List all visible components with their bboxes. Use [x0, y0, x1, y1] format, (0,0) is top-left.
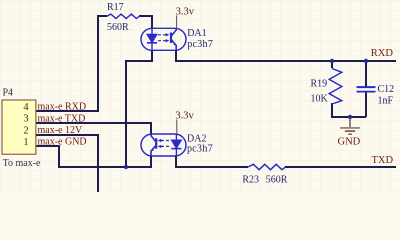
svg-text:max-e 12V: max-e 12V [38, 125, 83, 136]
svg-text:560R: 560R [266, 174, 288, 185]
svg-text:1nF: 1nF [378, 95, 394, 106]
svg-text:max-e RXD: max-e RXD [38, 101, 87, 112]
svg-text:pc3h7: pc3h7 [187, 39, 213, 50]
svg-text:560R: 560R [107, 22, 129, 33]
svg-text:pc3h7: pc3h7 [187, 143, 213, 154]
svg-text:4: 4 [23, 102, 29, 113]
svg-text:1: 1 [23, 137, 28, 148]
svg-text:GND: GND [338, 137, 361, 148]
svg-text:To max-e: To max-e [3, 158, 41, 169]
svg-text:P4: P4 [3, 88, 14, 99]
svg-text:R17: R17 [107, 2, 124, 13]
svg-text:DA1: DA1 [187, 28, 206, 39]
svg-text:3.3v: 3.3v [175, 111, 194, 122]
svg-text:R19: R19 [311, 79, 328, 90]
svg-text:C12: C12 [378, 84, 395, 95]
svg-text:3.3v: 3.3v [176, 6, 195, 17]
svg-text:TXD: TXD [372, 155, 394, 166]
svg-text:2: 2 [23, 125, 28, 136]
svg-text:10K: 10K [311, 94, 329, 105]
svg-text:RXD: RXD [371, 48, 394, 59]
svg-text:max-e TXD: max-e TXD [38, 113, 86, 124]
svg-text:max-e GND: max-e GND [38, 136, 87, 147]
svg-text:R23: R23 [242, 174, 259, 185]
svg-text:3: 3 [23, 114, 28, 125]
